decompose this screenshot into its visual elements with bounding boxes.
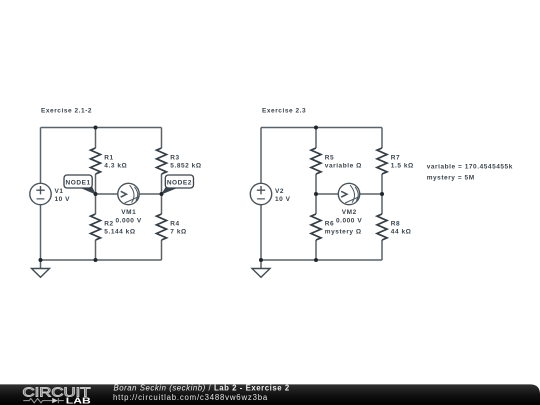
svg-text:R7: R7 xyxy=(391,154,400,161)
svg-text:R4: R4 xyxy=(170,220,179,227)
wire ground stub V2 xyxy=(260,260,262,269)
wire bottom rail right circuit xyxy=(261,259,382,261)
junction dot ground V1 xyxy=(39,258,43,262)
svg-text:V2: V2 xyxy=(275,188,284,195)
svg-text:VM2: VM2 xyxy=(342,209,357,216)
resistor R6 xyxy=(311,214,321,240)
svg-text:R5: R5 xyxy=(325,154,334,161)
junction dot right top xyxy=(314,126,318,130)
svg-text:0.000 V: 0.000 V xyxy=(115,217,141,224)
svg-text:R8: R8 xyxy=(391,220,400,227)
wire R5 top lead xyxy=(315,128,317,149)
svg-text:R3: R3 xyxy=(170,154,179,161)
junction dot ground V2 xyxy=(259,258,263,262)
wire R6 bottom lead xyxy=(315,240,317,260)
wire R8 bottom lead xyxy=(381,240,383,260)
resistor R5 xyxy=(311,148,321,174)
svg-text:1.5 kΩ: 1.5 kΩ xyxy=(391,163,414,170)
svg-text:Boran Seckin (seckinb) / Lab 2: Boran Seckin (seckinb) / Lab 2 - Exercis… xyxy=(114,384,290,393)
junction dot right bottom rail xyxy=(314,258,318,262)
wire R6 top lead xyxy=(315,194,317,214)
resistor R2 xyxy=(91,214,101,240)
svg-text:Exercise 2.1-2: Exercise 2.1-2 xyxy=(41,108,92,115)
node flag NODE1 xyxy=(64,175,96,195)
ground right circuit xyxy=(252,269,270,278)
wire R3 top lead xyxy=(161,128,163,149)
wire R2 bottom lead xyxy=(95,240,97,260)
voltmeter VM1 xyxy=(118,183,139,204)
resistor R1 xyxy=(91,148,101,174)
wire R1 top lead xyxy=(95,128,97,149)
junction dot left bottom rail xyxy=(94,258,98,262)
junction dot left top xyxy=(94,126,98,130)
resistor R3 xyxy=(157,148,167,174)
resistor R4 xyxy=(157,214,167,240)
junction dot node C xyxy=(314,192,318,196)
svg-text:4.3 kΩ: 4.3 kΩ xyxy=(104,163,127,170)
wire R7 top lead xyxy=(381,128,383,149)
wire R3 bottom lead to node B xyxy=(161,174,163,194)
wire R4 bottom lead xyxy=(161,240,163,260)
wire top rail left circuit xyxy=(41,127,162,129)
wire VM2 right terminal to node D xyxy=(360,193,382,195)
svg-text:NODE1: NODE1 xyxy=(66,179,91,186)
svg-text:mystery = 5M: mystery = 5M xyxy=(427,174,475,181)
voltage source V1 xyxy=(30,183,51,204)
svg-text:7 kΩ: 7 kΩ xyxy=(170,229,186,236)
svg-text:10 V: 10 V xyxy=(275,196,291,203)
svg-text:VM1: VM1 xyxy=(121,209,136,216)
wire left rail lower (V2 bottom lead) xyxy=(260,205,262,260)
svg-text:variable = 170.4545455k: variable = 170.4545455k xyxy=(427,163,513,170)
svg-text:R1: R1 xyxy=(104,154,113,161)
wire ground stub V1 xyxy=(40,260,42,269)
wire R8 top lead xyxy=(381,194,383,214)
voltage source V2 xyxy=(250,183,271,204)
wire left rail upper (V2 top lead) xyxy=(260,128,262,184)
wire bottom rail left circuit xyxy=(41,259,162,261)
wire R5 bottom lead to node C xyxy=(315,174,317,194)
voltmeter VM2 xyxy=(338,183,359,204)
ground left circuit xyxy=(32,269,50,278)
node flag NODE2 xyxy=(161,175,194,195)
logo resistor zigzag and diode xyxy=(23,398,64,403)
wire left rail upper (V1 top lead) xyxy=(40,128,42,184)
junction dot node D xyxy=(380,192,384,196)
wire R2 top lead xyxy=(95,194,97,214)
svg-text:5.144 kΩ: 5.144 kΩ xyxy=(104,229,135,236)
svg-text:5.852 kΩ: 5.852 kΩ xyxy=(170,163,201,170)
svg-text:NODE2: NODE2 xyxy=(167,179,192,186)
svg-text:mystery Ω: mystery Ω xyxy=(325,229,362,236)
wire node A to VM1 left terminal xyxy=(96,193,118,195)
wire node C to VM2 left terminal xyxy=(316,193,338,195)
svg-text:V1: V1 xyxy=(55,188,64,195)
svg-text:R2: R2 xyxy=(104,220,113,227)
svg-text:Exercise 2.3: Exercise 2.3 xyxy=(262,108,306,115)
svg-text:LAB: LAB xyxy=(66,395,91,405)
wire top rail right circuit xyxy=(261,127,382,129)
wire R7 bottom lead to node D xyxy=(381,174,383,194)
wire R1 bottom lead to node A xyxy=(95,174,97,194)
junction dot node B xyxy=(160,192,164,196)
svg-text:44 kΩ: 44 kΩ xyxy=(391,229,412,236)
svg-text:0.000 V: 0.000 V xyxy=(336,217,362,224)
junction dot node A xyxy=(94,192,98,196)
wire VM1 right terminal to node B xyxy=(139,193,161,195)
svg-text:variable Ω: variable Ω xyxy=(325,163,362,170)
svg-text:10 V: 10 V xyxy=(55,196,71,203)
svg-text:http://circuitlab.com/c3488vw6: http://circuitlab.com/c3488vw6wz3ba xyxy=(113,393,268,402)
resistor R7 xyxy=(377,148,387,174)
wire left rail lower (V1 bottom lead) xyxy=(40,205,42,260)
wire R4 top lead xyxy=(161,194,163,214)
resistor R8 xyxy=(377,214,387,240)
svg-text:R6: R6 xyxy=(325,220,334,227)
